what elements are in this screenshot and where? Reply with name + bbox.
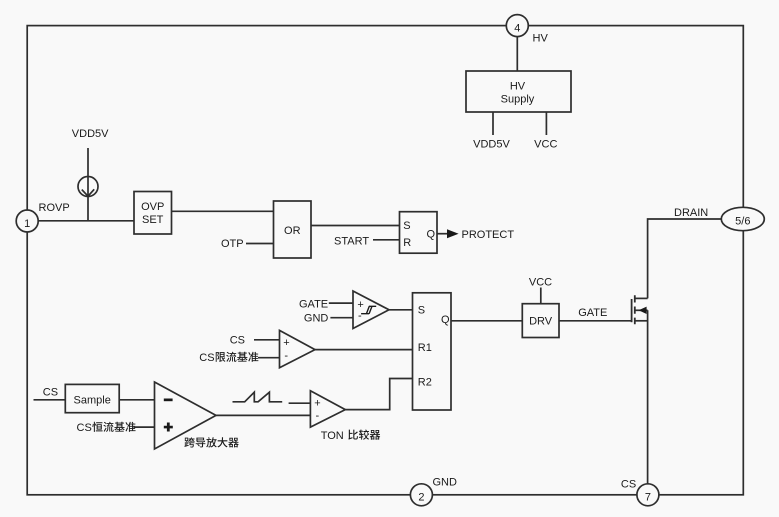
svg-text:HV: HV xyxy=(510,81,526,93)
svg-text:GND: GND xyxy=(304,312,329,324)
svg-text:R1: R1 xyxy=(418,342,432,354)
transistor M1 channel segments xyxy=(634,295,636,324)
svg-text:GATE: GATE xyxy=(299,298,328,310)
svg-text:ROVP: ROVP xyxy=(39,202,70,214)
wire U2 Q output xyxy=(437,233,449,235)
block Sample xyxy=(65,384,119,412)
svg-text:4: 4 xyxy=(514,22,520,34)
svg-text:CS: CS xyxy=(621,479,636,491)
latch U2 (SR) xyxy=(400,212,438,254)
wire GND input xyxy=(330,317,353,319)
transistor M1 gate bar xyxy=(631,299,633,322)
transistor M1 source stub xyxy=(635,320,648,322)
svg-text:Q: Q xyxy=(427,229,436,241)
svg-text:CS: CS xyxy=(230,335,245,347)
svg-text:OTP: OTP xyxy=(221,238,244,250)
wire pin1 to OVP SET xyxy=(38,220,134,222)
pin 7 (CS) xyxy=(637,484,659,506)
svg-text:OVP: OVP xyxy=(141,201,164,213)
wire pin4 to HV Supply xyxy=(516,34,518,71)
block U1 HV Supply xyxy=(466,71,571,112)
wire U3 out to latch U4 S xyxy=(389,309,413,311)
svg-text:VDD5V: VDD5V xyxy=(72,128,109,140)
comparator U5 (CS limit) xyxy=(280,330,316,367)
svg-text:+: + xyxy=(314,398,320,410)
wire M1 source to pin 7 xyxy=(647,310,649,484)
svg-text:CS: CS xyxy=(77,422,92,434)
svg-text:-: - xyxy=(284,350,288,362)
latch U4 (S R1 R2 Q) xyxy=(413,293,452,410)
svg-text:GATE: GATE xyxy=(578,307,607,319)
wire VCC to DRV xyxy=(540,288,542,304)
wire sawtooth to TON comparator xyxy=(289,402,311,404)
svg-text:5/6: 5/6 xyxy=(735,215,750,227)
label 跨导放大器 xyxy=(184,437,238,447)
wire CS to Sample xyxy=(34,399,66,401)
wire OR to latch U2 S input xyxy=(311,225,400,227)
wire VDD5V output stub xyxy=(492,112,494,135)
svg-text:R: R xyxy=(403,237,411,249)
block DRV xyxy=(522,304,559,338)
comparator U7 (TON) xyxy=(310,391,345,427)
svg-text:CS: CS xyxy=(43,387,58,399)
wire VDD5V to current source to ROVP node xyxy=(87,148,89,221)
op-amp U6 (transconductance) xyxy=(155,382,217,449)
wire DRV to MOSFET gate xyxy=(559,320,632,322)
svg-text:GND: GND xyxy=(433,477,458,489)
svg-text:START: START xyxy=(334,235,369,247)
transistor M1 body arrow xyxy=(635,309,648,311)
svg-text:+: + xyxy=(283,337,289,349)
svg-text:1: 1 xyxy=(24,218,30,230)
svg-text:VCC: VCC xyxy=(529,276,552,288)
svg-text:VDD5V: VDD5V xyxy=(473,139,510,151)
wire U4 Q to DRV xyxy=(451,320,522,322)
svg-text:Supply: Supply xyxy=(501,94,535,106)
svg-text:Q: Q xyxy=(441,314,450,326)
comparator U3 (schmitt trigger) xyxy=(353,291,389,329)
svg-text:7: 7 xyxy=(645,492,651,504)
arrowhead PROTECT xyxy=(447,229,459,238)
sawtooth waveform symbol xyxy=(233,392,283,402)
svg-text:+: + xyxy=(357,299,363,311)
wire U5 out to latch U4 R1 xyxy=(315,349,413,351)
wire START to latch U2 R input xyxy=(373,239,400,241)
svg-text:DRV: DRV xyxy=(529,316,553,328)
wire U7 out to latch U4 R2 xyxy=(345,379,412,410)
pin 1 (ROVP) xyxy=(16,210,38,232)
svg-text:TON: TON xyxy=(321,430,347,442)
wire M1 drain to DRAIN rail xyxy=(648,219,721,298)
svg-text:-: - xyxy=(358,310,362,322)
svg-text:Sample: Sample xyxy=(74,394,111,406)
wire OVP SET to OR xyxy=(172,210,274,212)
wire U6 out to TON comparator xyxy=(216,414,310,416)
svg-text:CS: CS xyxy=(199,352,214,364)
svg-text:S: S xyxy=(418,304,425,316)
block OVP SET xyxy=(134,192,172,235)
wire GATE input xyxy=(329,302,353,304)
wire CS恒流基准 to amp xyxy=(134,426,155,428)
wire OTP to OR xyxy=(246,243,274,245)
wire Sample to amp xyxy=(119,399,154,401)
pin 5/6 (DRAIN) xyxy=(721,207,764,230)
svg-text:HV: HV xyxy=(533,33,549,45)
wire VCC output stub xyxy=(545,112,547,135)
svg-text:2: 2 xyxy=(418,492,424,504)
transistor M1 drain stub xyxy=(635,297,648,299)
wire CS input xyxy=(254,339,280,341)
hysteresis symbol xyxy=(361,306,376,313)
wire CS限流基准 input xyxy=(258,357,280,359)
svg-text:VCC: VCC xyxy=(534,139,557,151)
svg-text:DRAIN: DRAIN xyxy=(674,207,708,219)
pin 4 (HV) xyxy=(506,15,528,37)
gate OR xyxy=(274,201,312,258)
current source I1 xyxy=(78,177,98,197)
svg-text:PROTECT: PROTECT xyxy=(462,229,515,241)
svg-text:S: S xyxy=(403,220,410,232)
svg-text:-: - xyxy=(316,410,320,422)
svg-text:SET: SET xyxy=(142,214,164,226)
pin 2 (GND) xyxy=(410,484,432,506)
svg-text:OR: OR xyxy=(284,225,301,237)
svg-text:R2: R2 xyxy=(418,376,432,388)
